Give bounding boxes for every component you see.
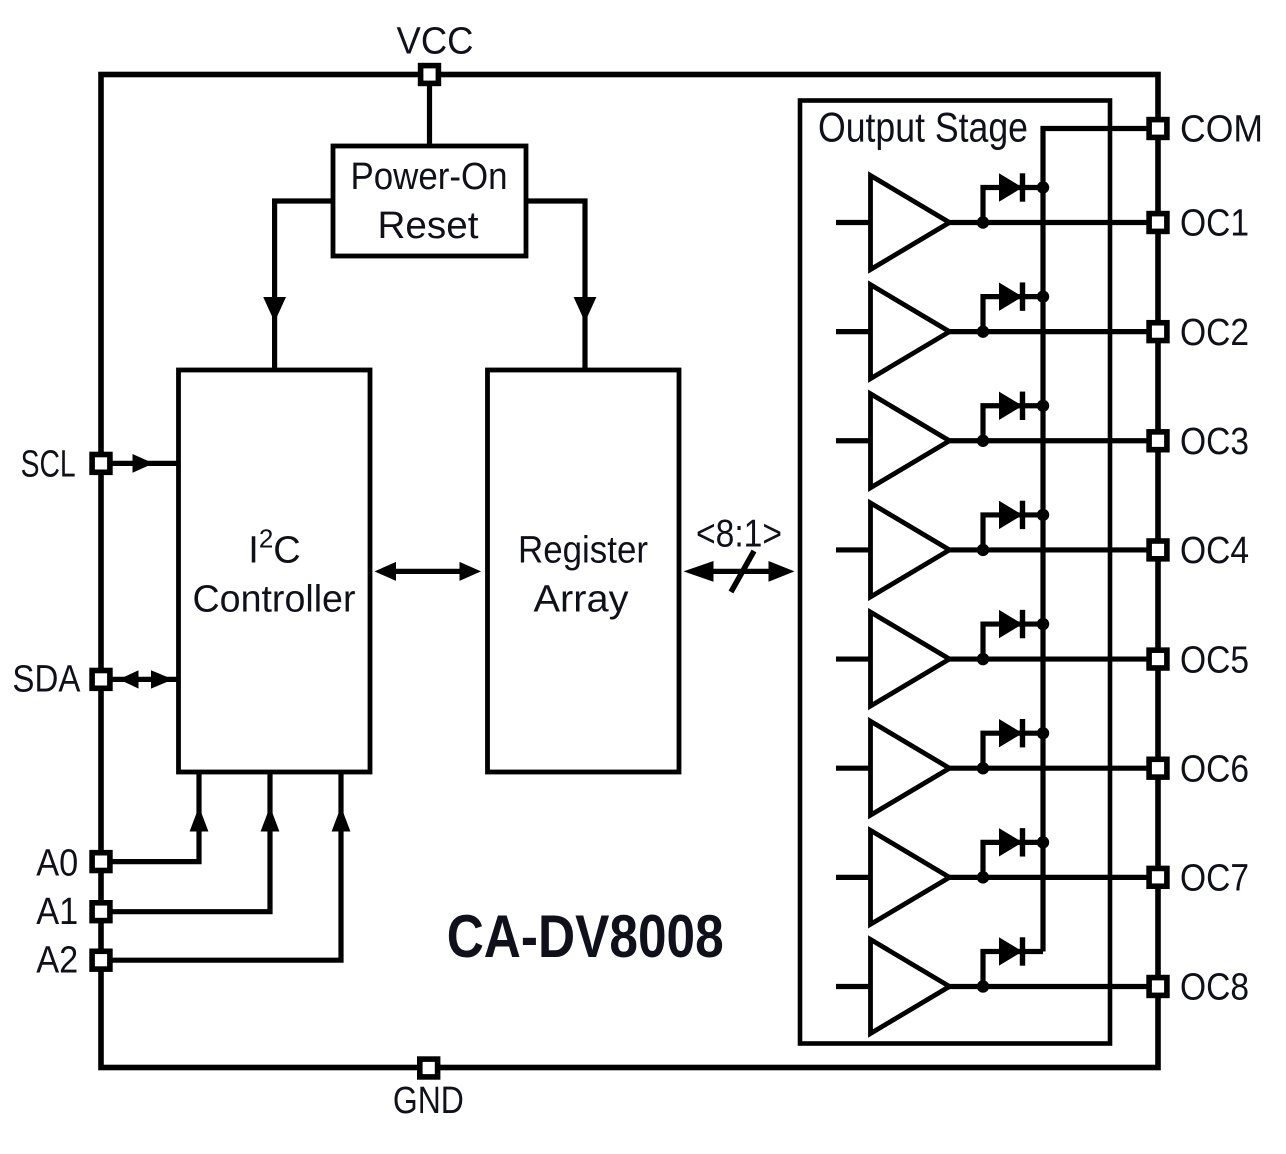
buffer driver A5 input stub wire — [836, 656, 871, 661]
pin OC8 — [1149, 978, 1167, 996]
wire buffer A4 output to pin OC4 — [950, 547, 1159, 552]
diode D3 (clamp to COM) — [999, 392, 1023, 420]
pin SDA — [92, 671, 110, 689]
arrowhead right (Register side) — [460, 562, 482, 581]
buffer driver A3 — [871, 394, 950, 488]
arrowhead bus right — [769, 561, 795, 582]
svg-text:Power-On: Power-On — [351, 156, 508, 198]
wire buffer A2 output to pin OC2 — [950, 329, 1159, 334]
diode D6 cathode bar — [1020, 719, 1025, 747]
wire A1 pin to I2C Controller — [110, 772, 270, 912]
buffer driver A1 input stub wire — [836, 220, 871, 225]
wire OC4 node to clamp diode D4 — [983, 515, 1043, 550]
wire buffer A1 output to pin OC1 — [950, 220, 1159, 225]
svg-text:OC2: OC2 — [1180, 312, 1249, 354]
arrowhead SCL (right) — [133, 454, 154, 473]
svg-text:<8:1>: <8:1> — [696, 513, 782, 556]
pin COM — [1149, 120, 1167, 138]
pin VCC — [421, 66, 439, 84]
wire buffer A6 output to pin OC6 — [950, 766, 1159, 771]
pin OC3 — [1149, 432, 1167, 450]
junction dot output node OC3 — [977, 435, 989, 447]
diode D1 cathode bar — [1020, 173, 1025, 201]
buffer driver A5 — [871, 612, 950, 706]
junction dot D4 cathode to COM rail — [1037, 509, 1049, 521]
svg-text:I2C: I2C — [248, 524, 300, 572]
diode D8 (clamp to COM) — [999, 937, 1023, 965]
junction dot D6 cathode to COM rail — [1037, 727, 1049, 739]
wire Power-On Reset to I2C Controller — [275, 201, 333, 370]
wire OC3 node to clamp diode D3 — [983, 406, 1043, 441]
wire buffer A5 output to pin OC5 — [950, 656, 1159, 661]
buffer driver A6 — [871, 721, 950, 815]
pin A1 — [92, 903, 110, 921]
pin OC6 — [1149, 759, 1167, 777]
svg-text:Output Stage: Output Stage — [818, 104, 1028, 151]
wire buffer A8 output to pin OC8 — [950, 984, 1159, 989]
arrowhead left (I2C side) — [375, 562, 397, 581]
junction dot D3 cathode to COM rail — [1037, 400, 1049, 412]
buffer driver A7 input stub wire — [836, 875, 871, 880]
buffer driver A2 — [871, 285, 950, 379]
wire OC2 node to clamp diode D2 — [983, 297, 1043, 332]
block U4 Output Stage — [800, 101, 1110, 1044]
junction dot output node OC8 — [977, 980, 989, 992]
wire Power-On Reset to Register Array — [526, 201, 585, 370]
wire A2 pin to I2C Controller — [110, 772, 341, 960]
svg-text:SCL: SCL — [21, 443, 76, 485]
junction dot output node OC7 — [977, 871, 989, 883]
buffer driver A2 input stub wire — [836, 329, 871, 334]
arrowhead reset-to-I2C (down) — [263, 297, 286, 322]
svg-text:A1: A1 — [36, 891, 78, 933]
svg-text:OC5: OC5 — [1180, 639, 1249, 681]
wire buffer A3 output to pin OC3 — [950, 438, 1159, 443]
bus wire Register Array to Output Stage (8:1) — [705, 569, 774, 574]
svg-text:A2: A2 — [36, 940, 78, 982]
svg-text:VCC: VCC — [397, 20, 474, 62]
diode D5 (clamp to COM) — [999, 610, 1023, 638]
arrowhead A0 (up) — [190, 807, 209, 832]
arrowhead SDA left — [119, 670, 139, 688]
buffer driver A1 — [871, 176, 950, 270]
junction dot D2 cathode to COM rail — [1037, 290, 1049, 302]
diode D2 (clamp to COM) — [999, 282, 1023, 310]
diode D7 cathode bar — [1020, 828, 1025, 856]
junction dot output node OC4 — [977, 544, 989, 556]
diode D4 cathode bar — [1020, 501, 1025, 529]
pin A0 — [92, 853, 110, 871]
junction dot output node OC6 — [977, 762, 989, 774]
diode D8 cathode bar — [1020, 937, 1025, 965]
bus width slash — [731, 551, 754, 592]
svg-text:SDA: SDA — [12, 659, 81, 701]
diode D4 (clamp to COM) — [999, 501, 1023, 529]
diode D7 (clamp to COM) — [999, 828, 1023, 856]
pin A2 — [92, 951, 110, 969]
svg-text:OC8: OC8 — [1180, 967, 1249, 1009]
pin OC4 — [1149, 541, 1167, 559]
svg-text:OC3: OC3 — [1180, 421, 1249, 463]
diode D3 cathode bar — [1020, 392, 1025, 420]
net COM rail — [1043, 129, 1158, 952]
arrowhead bus left — [684, 561, 714, 582]
wire VCC pin to Power-On Reset — [427, 75, 432, 147]
junction dot D1 cathode to COM rail — [1037, 181, 1049, 193]
block U1 Power-On Reset — [333, 146, 526, 256]
svg-text:CA-DV8008: CA-DV8008 — [447, 903, 724, 970]
buffer driver A8 input stub wire — [836, 984, 871, 989]
svg-text:OC6: OC6 — [1180, 748, 1249, 790]
block U2 I2C Controller — [179, 370, 371, 772]
buffer driver A3 input stub wire — [836, 438, 871, 443]
diode D2 cathode bar — [1020, 282, 1025, 310]
wire OC6 node to clamp diode D6 — [983, 733, 1043, 768]
wire OC5 node to clamp diode D5 — [983, 624, 1043, 659]
svg-text:GND: GND — [393, 1080, 464, 1122]
diode D6 (clamp to COM) — [999, 719, 1023, 747]
wire buffer A7 output to pin OC7 — [950, 875, 1159, 880]
buffer driver A4 — [871, 503, 950, 597]
junction dot D5 cathode to COM rail — [1037, 618, 1049, 630]
wire I2C Controller to Register Array (bidirectional) — [390, 569, 468, 574]
arrowhead A1 (up) — [261, 807, 280, 832]
wire SCL pin to I2C Controller — [110, 461, 179, 466]
svg-text:Reset: Reset — [378, 205, 479, 247]
junction dot output node OC1 — [977, 216, 989, 228]
arrowhead reset-to-register (down) — [574, 297, 597, 322]
arrowhead SDA right — [151, 670, 173, 688]
svg-text:A0: A0 — [36, 843, 78, 885]
buffer driver A4 input stub wire — [836, 547, 871, 552]
svg-text:OC4: OC4 — [1180, 530, 1249, 572]
chip boundary border — [101, 75, 1158, 1068]
pin OC1 — [1149, 214, 1167, 232]
junction dot D7 cathode to COM rail — [1037, 836, 1049, 848]
buffer driver A6 input stub wire — [836, 766, 871, 771]
junction dot output node OC5 — [977, 653, 989, 665]
diode D5 cathode bar — [1020, 610, 1025, 638]
svg-text:COM: COM — [1180, 109, 1263, 151]
svg-text:Array: Array — [534, 578, 629, 620]
svg-text:Register: Register — [518, 530, 648, 572]
pin GND — [420, 1059, 438, 1077]
wire A0 pin to I2C Controller — [110, 772, 199, 862]
buffer driver A8 — [871, 939, 950, 1033]
wire SDA pin to I2C Controller (bidirectional) — [110, 677, 179, 682]
block U3 Register Array — [488, 370, 680, 772]
pin OC2 — [1149, 323, 1167, 341]
pin OC5 — [1149, 650, 1167, 668]
wire OC7 node to clamp diode D7 — [983, 842, 1043, 877]
diode D1 (clamp to COM) — [999, 173, 1023, 201]
wire OC8 node to clamp diode D8 — [983, 951, 1043, 986]
junction dot output node OC2 — [977, 325, 989, 337]
pin OC7 — [1149, 868, 1167, 886]
pin SCL — [92, 455, 110, 473]
svg-text:OC1: OC1 — [1180, 203, 1249, 245]
buffer driver A7 — [871, 830, 950, 924]
wire OC1 node to clamp diode D1 — [983, 188, 1043, 223]
arrowhead A2 (up) — [332, 807, 351, 832]
svg-text:OC7: OC7 — [1180, 858, 1249, 900]
svg-text:Controller: Controller — [193, 578, 356, 620]
